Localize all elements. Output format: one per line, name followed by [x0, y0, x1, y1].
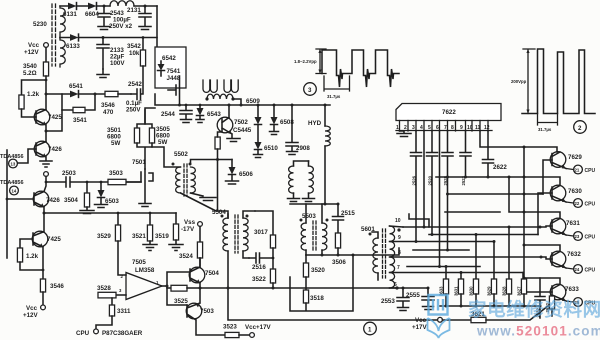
svg-text:3520: 3520 [311, 267, 325, 274]
svg-text:CPU: CPU [585, 235, 596, 241]
terminal Vss -17V [198, 222, 203, 227]
wire top rail [60, 5, 157, 7]
SMPS regulator box U6542 [155, 47, 186, 88]
svg-text:5503: 5503 [302, 213, 316, 220]
svg-text:200Vpp: 200Vpp [511, 79, 527, 84]
svg-text:HYD: HYD [308, 120, 322, 127]
svg-text:3518: 3518 [310, 295, 324, 302]
capacitor C2908 [291, 104, 294, 107]
svg-text:2622: 2622 [493, 164, 507, 171]
svg-text:14: 14 [12, 189, 17, 194]
wire resistor bank bottom rail [440, 294, 540, 306]
svg-text:3504: 3504 [64, 197, 78, 204]
terminal Vcc +12V [44, 43, 49, 48]
svg-text:6: 6 [394, 282, 397, 288]
waveform 3 period dimension [324, 76, 350, 91]
svg-text:2: 2 [578, 125, 582, 132]
svg-text:13: 13 [11, 162, 16, 167]
svg-text:10k: 10k [129, 50, 140, 57]
wire output row [200, 288, 438, 320]
svg-text:5W: 5W [158, 139, 167, 146]
svg-text:6541: 6541 [69, 83, 83, 90]
bus row lower short [407, 266, 480, 268]
svg-text:7633: 7633 [565, 286, 579, 293]
waveform marker circle 2 [574, 121, 587, 134]
diode D6604 [88, 3, 97, 10]
waveform 2 period dimension [538, 114, 558, 126]
resistor R3628 [506, 279, 511, 294]
capacitor C2520 pin5 [427, 131, 438, 235]
deflection yoke coil HYD [324, 104, 327, 107]
svg-text:5230: 5230 [33, 21, 47, 28]
transistor Q7504 [189, 267, 205, 283]
IC U7622 jungle [396, 104, 501, 121]
svg-text:5.2Ω: 5.2Ω [23, 70, 37, 77]
wire s-correction row [306, 248, 399, 255]
svg-text:2553: 2553 [381, 298, 395, 305]
svg-text:3628: 3628 [502, 286, 507, 296]
resistor R3501 6800 5W [137, 110, 152, 128]
zener diode inside box [158, 61, 165, 76]
resistor R3541 loop bottom [62, 94, 95, 110]
wire loop drop branch [46, 110, 62, 131]
svg-text:www.520101.com: www.520101.com [476, 324, 600, 339]
transistor Q7425 upper [34, 109, 50, 125]
transistor Q7632 [550, 251, 566, 267]
svg-text:23: 23 [575, 234, 580, 239]
terminal Vcc +12V bottom [41, 305, 46, 310]
wire collector 7631 [509, 177, 560, 218]
resistor R1.2k upper [22, 80, 47, 95]
wire collector 7633 [524, 278, 560, 284]
svg-text:6133: 6133 [66, 43, 80, 50]
svg-text:J448: J448 [167, 75, 181, 82]
resistor R3518 [305, 277, 307, 290]
diode D6508 [273, 104, 276, 107]
ground [97, 69, 109, 78]
capacitor C2131 [144, 5, 147, 8]
resistor R3633 [443, 279, 448, 294]
wire drain feed to 5502 [152, 147, 181, 167]
transformer T5230 winding top [60, 6, 65, 38]
svg-text:1.2k: 1.2k [27, 91, 40, 98]
terminal CPU P87C38GAER [94, 329, 99, 334]
svg-text:470: 470 [103, 109, 114, 116]
svg-text:21: 21 [575, 168, 580, 173]
riser base 7633 [523, 273, 552, 293]
bus row tap9 [392, 241, 494, 243]
svg-text:1.2k: 1.2k [26, 253, 39, 260]
svg-text:2131: 2131 [127, 7, 141, 14]
svg-text:3: 3 [308, 87, 312, 94]
svg-text:7: 7 [397, 265, 400, 271]
resistor R3627 [521, 279, 526, 294]
svg-text:3542: 3542 [127, 43, 141, 50]
svg-text:7630: 7630 [568, 188, 582, 195]
svg-text:3630: 3630 [469, 286, 474, 296]
resistor R3521 [149, 212, 152, 215]
resistor R3621 [442, 319, 471, 321]
svg-text:7425: 7425 [48, 114, 62, 121]
wire 5502 to 6506 [191, 160, 233, 165]
wire Vcc column [45, 76, 47, 94]
svg-text:3540: 3540 [23, 63, 37, 70]
wire rail drop [156, 6, 158, 47]
svg-text:3521: 3521 [132, 233, 146, 240]
node [103, 5, 106, 8]
svg-text:3519: 3519 [155, 233, 169, 240]
svg-text:7631: 7631 [566, 220, 580, 227]
ground pins 1-2 [397, 131, 411, 137]
svg-text:7505: 7505 [132, 259, 146, 266]
resistor R3505 6800 5W [149, 128, 154, 143]
svg-text:7425: 7425 [47, 236, 61, 243]
waveform 3 amplitude dimension [316, 49, 326, 74]
svg-text:P87C38GAER: P87C38GAER [102, 330, 143, 337]
waveform 3 trace [322, 50, 399, 87]
svg-text:1: 1 [368, 327, 372, 334]
wire collector 7632 [524, 245, 560, 251]
svg-text:2503: 2503 [62, 170, 76, 177]
wire base 7426 [18, 149, 36, 163]
svg-text:5W: 5W [111, 140, 120, 147]
diode D6509 [257, 104, 260, 107]
svg-text:3017: 3017 [254, 229, 268, 236]
svg-text:3528: 3528 [97, 285, 111, 292]
choke cup winding A [203, 80, 217, 92]
choke inductor [205, 97, 208, 100]
capacitor C2543 [98, 6, 110, 30]
diode D6510 [254, 150, 263, 158]
svg-text:31.7µs: 31.7µs [538, 127, 552, 132]
capacitor C2542 0.1uF 250V [131, 66, 143, 100]
svg-text:3523: 3523 [223, 324, 237, 331]
svg-text:6510: 6510 [264, 145, 278, 152]
wire main rail [145, 94, 330, 124]
svg-text:8: 8 [398, 250, 401, 256]
svg-text:CPU: CPU [585, 168, 596, 174]
transistor Q7633 [550, 284, 566, 300]
transistor Q7631 [550, 218, 566, 234]
diode D6133 [70, 34, 79, 41]
waveform marker circle 3 [304, 83, 317, 96]
capacitor C2622 pin12 [483, 131, 494, 177]
left rail [6, 150, 8, 258]
svg-text:3506: 3506 [332, 259, 346, 266]
svg-text:7622: 7622 [442, 109, 456, 116]
resistor R1.2k lower [17, 248, 22, 262]
wire row 177 [436, 177, 560, 185]
resistor R3629 [491, 279, 496, 294]
svg-text:3627: 3627 [517, 286, 522, 296]
svg-text:10: 10 [395, 218, 401, 224]
bus row mid [429, 234, 538, 236]
transistor Q7503 [186, 303, 202, 319]
svg-text:LM358: LM358 [135, 267, 155, 274]
diode D6543 [199, 104, 202, 107]
resistor R3506 [335, 233, 340, 248]
terminal node output [44, 172, 49, 177]
riser base 7630 [538, 193, 552, 235]
svg-text:250V x2: 250V x2 [109, 23, 133, 30]
svg-text:3522: 3522 [252, 276, 266, 283]
svg-text:3524: 3524 [179, 253, 193, 260]
svg-text:+12V: +12V [23, 312, 38, 319]
capacitor C2553 [397, 288, 409, 311]
svg-text:C5445: C5445 [233, 127, 252, 134]
wire emitter branch [43, 212, 46, 215]
svg-text:3541: 3541 [73, 117, 87, 124]
svg-text:5504: 5504 [212, 209, 226, 216]
capacitor C2632 [535, 278, 545, 318]
diode D6503 [95, 182, 108, 208]
svg-text:6542: 6542 [162, 55, 176, 62]
svg-text:7426: 7426 [48, 146, 62, 153]
svg-text:2908: 2908 [296, 145, 310, 152]
svg-text:+12V: +12V [24, 49, 39, 56]
transistor Q7426 lower [33, 191, 49, 207]
capacitor C2523 pin9 [460, 131, 471, 177]
svg-text:22: 22 [575, 201, 580, 206]
svg-text:6503: 6503 [105, 198, 119, 205]
ground under 7501 [139, 204, 151, 207]
svg-text:6506: 6506 [239, 171, 253, 178]
svg-text:3631: 3631 [454, 286, 459, 296]
wire base to 1.2k [22, 109, 37, 117]
resistor R3632 [549, 296, 554, 309]
capacitor C2555 [422, 288, 434, 310]
svg-text:1.8~2.2Vpp: 1.8~2.2Vpp [294, 59, 317, 64]
resistor R3546 lower [40, 279, 45, 292]
capacitor C2528 pin7 [442, 131, 453, 250]
diode D6131 [68, 3, 77, 10]
svg-text:Vcc: Vcc [415, 317, 427, 324]
diode D6506 [226, 160, 239, 185]
svg-text:9: 9 [398, 235, 401, 241]
svg-text:2516: 2516 [252, 264, 266, 271]
svg-text:5502: 5502 [174, 151, 188, 158]
svg-text:7632: 7632 [567, 251, 581, 258]
resistor R3519 [175, 213, 177, 224]
svg-text:3311: 3311 [117, 308, 131, 315]
upper linearity winding A [289, 166, 294, 193]
capacitor C2133 [102, 36, 105, 39]
svg-text:250V: 250V [126, 107, 141, 114]
bus row short [413, 249, 469, 251]
svg-text:Vss: Vss [184, 219, 196, 226]
transformer T5230 core [52, 4, 56, 66]
svg-text:2542: 2542 [128, 81, 142, 88]
svg-text:Vcc: Vcc [28, 42, 40, 49]
waveform 2 trace [522, 49, 595, 114]
svg-text:100V: 100V [110, 60, 125, 67]
svg-text:3629: 3629 [487, 286, 492, 296]
resistor R3520 [305, 255, 307, 263]
transistor Q7629 [550, 152, 566, 168]
wire mid horizontal [290, 203, 338, 205]
bus row to 7632 base [392, 257, 552, 259]
resistor R3017 [255, 211, 273, 235]
svg-text:6131: 6131 [63, 11, 77, 18]
capacitor C2526 pin3 [411, 131, 422, 242]
wire pin4 drop [423, 131, 425, 227]
svg-text:Vcc: Vcc [26, 305, 38, 312]
transformer T5230 winding bottom [60, 38, 65, 68]
resistor R3503 [87, 181, 141, 183]
svg-text:3529: 3529 [97, 233, 111, 240]
transistor Q7630 [550, 185, 566, 201]
svg-text:3546: 3546 [50, 283, 64, 290]
svg-text:7426: 7426 [46, 197, 60, 204]
capacitor C2516 [249, 253, 273, 263]
resistor R3524 [199, 226, 201, 242]
choke cup winding B [224, 80, 238, 92]
wire pin11 to collector bus [480, 131, 557, 152]
resistor R3523 [225, 332, 239, 337]
resistor R3525 feedback [167, 287, 171, 289]
resistor R3542 10k [142, 36, 145, 39]
bus row staircase upper [409, 212, 500, 227]
svg-text:2555: 2555 [406, 292, 420, 299]
IC pin stubs [400, 121, 489, 132]
resistor R3528 [116, 294, 126, 296]
svg-text:3546: 3546 [101, 102, 115, 109]
wire driver riser [167, 272, 190, 305]
riser base 7629 [543, 160, 552, 194]
svg-text:TDA4856: TDA4856 [0, 180, 24, 186]
svg-text:-17V: -17V [181, 226, 195, 233]
svg-text:2526: 2526 [412, 175, 417, 185]
transformer 5601 taps [390, 226, 404, 273]
svg-text:+17V: +17V [412, 324, 427, 331]
svg-text:7504: 7504 [205, 270, 219, 277]
svg-text:2544: 2544 [161, 111, 175, 118]
svg-text:2515: 2515 [341, 210, 355, 217]
svg-text:7541: 7541 [167, 68, 181, 75]
wire row 194 [448, 193, 544, 195]
svg-text:CPU: CPU [585, 202, 596, 208]
resistor R3630 [473, 279, 478, 294]
svg-text:24: 24 [575, 267, 580, 272]
resistor R3529 [117, 212, 120, 215]
svg-text:7503: 7503 [200, 308, 214, 315]
resistor R3546 470 [105, 91, 118, 96]
resistor R3522 [272, 258, 274, 269]
resistor R below 7502 base [215, 137, 220, 149]
upper linearity winding B [309, 166, 314, 193]
ground under 7426 [40, 161, 52, 167]
svg-text:31.7µs: 31.7µs [327, 94, 341, 99]
waveform 2 amplitude dimension [523, 49, 535, 114]
bus row tap7 [392, 272, 523, 274]
diode D6541 loop top [46, 93, 105, 95]
resistor R3311 [109, 305, 114, 316]
capacitor C2544 [185, 104, 188, 107]
svg-text:6604: 6604 [85, 11, 99, 18]
filter inductor [110, 1, 134, 6]
svg-text:2520: 2520 [428, 175, 433, 185]
svg-text:家电维修资料网: 家电维修资料网 [468, 299, 600, 320]
wire pin6 drop [439, 131, 441, 267]
resistor R3631 [458, 279, 463, 294]
watermark logo icon [428, 295, 450, 338]
svg-text:7502: 7502 [234, 119, 248, 126]
wire second rail [60, 37, 157, 39]
svg-text:Vcc+17V: Vcc+17V [245, 324, 272, 331]
svg-text:6543: 6543 [207, 111, 221, 118]
svg-text:7629: 7629 [568, 154, 582, 161]
svg-text:CPU: CPU [585, 268, 596, 274]
bus row to 7631 base [403, 226, 552, 227]
terminal Vcc +17V bottom [438, 317, 443, 322]
svg-text:CPU: CPU [76, 330, 90, 337]
wire long vertical [523, 147, 525, 279]
waveform marker circle 1 [364, 322, 377, 335]
resistor bank row [446, 227, 509, 279]
transistor Q7426 upper [34, 141, 50, 157]
resistor R3504 [86, 181, 89, 184]
wire 5502 bottom leads to ground [181, 193, 217, 211]
svg-text:7501: 7501 [132, 159, 146, 166]
svg-text:3503: 3503 [109, 170, 123, 177]
capacitor C2515 [337, 203, 340, 206]
resistor R3540 [45, 48, 47, 63]
capacitor C2503 [46, 177, 87, 187]
transistor Q7425 lower [32, 231, 48, 247]
terminal Vcc +17V [250, 333, 255, 338]
transistor Q7502 C5445 [222, 105, 232, 138]
svg-text:3525: 3525 [174, 298, 188, 305]
